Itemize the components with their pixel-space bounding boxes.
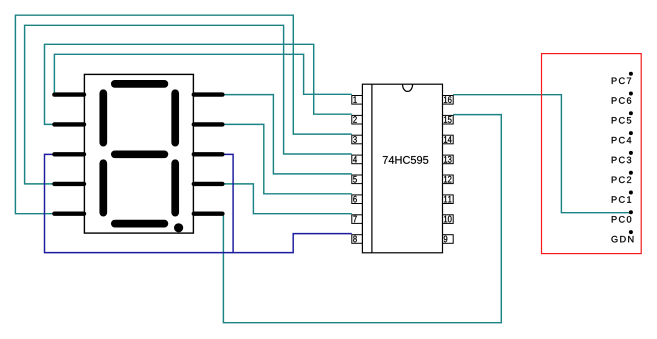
node PC3 <box>612 157 631 164</box>
connector J1 outline <box>542 54 642 254</box>
wire display L5 to U1 pin 3 <box>15 15 351 214</box>
U1 pin 10 <box>443 215 454 224</box>
display pin R1 <box>194 92 223 96</box>
segment G <box>115 150 165 158</box>
U1 body inner line <box>371 84 373 253</box>
wire display L1 to U1 pin 1 <box>54 54 351 94</box>
U1 pin 12 <box>443 175 454 184</box>
U1 notch <box>403 84 413 91</box>
U1 pin 14 <box>443 135 454 144</box>
U1 pin 11 <box>443 195 454 204</box>
display pin L5 <box>54 211 84 215</box>
segment D <box>115 220 165 228</box>
node PC4 <box>612 137 632 144</box>
display pin L3 <box>54 152 84 156</box>
display pin L1 <box>54 92 84 96</box>
wire display R5 to U1 pin 15 <box>223 115 501 323</box>
U1 pin 9 <box>443 235 454 244</box>
node PC2 <box>612 176 631 183</box>
wire display R2 to U1 pin 6 <box>223 124 352 193</box>
wire GND net display L3 to U1 pin 8 <box>45 154 352 252</box>
display pin R4 <box>194 182 223 186</box>
node PC5 <box>612 117 631 124</box>
decimal point <box>174 223 183 232</box>
display pin R2 <box>194 122 223 126</box>
node GDN <box>611 236 633 243</box>
U1 pin 13 <box>443 155 454 164</box>
display pin L4 <box>54 182 84 186</box>
wire U1 pin 16 to node PC0 <box>453 95 631 213</box>
display pin L2 <box>54 122 84 126</box>
segment A <box>115 80 165 88</box>
wire display R1 to U1 pin 5 <box>223 95 352 174</box>
node PC7 <box>612 77 631 84</box>
segment F <box>99 93 107 142</box>
segment B <box>171 93 179 142</box>
U1 pin 4 <box>352 155 363 164</box>
display pin R3 <box>194 152 223 156</box>
U1 pin 8 <box>352 235 363 244</box>
display pin R5 <box>194 211 223 215</box>
IC U1 74HC595 body <box>362 84 442 253</box>
U1 value label 74HC595 <box>383 156 428 164</box>
U1 pin 6 <box>352 195 363 204</box>
segment E <box>99 163 107 212</box>
U1 pin 2 <box>352 115 363 124</box>
U1 pin 15 <box>443 115 454 124</box>
U1 pin 3 <box>352 135 363 144</box>
U1 pin 7 <box>352 215 363 224</box>
wire display L4 to U1 pin 4 <box>25 25 352 184</box>
node PC0 <box>612 216 631 223</box>
U1 pin 5 <box>352 175 363 184</box>
node PC6 <box>612 97 631 104</box>
7-segment display DS1 body <box>84 74 193 233</box>
U1 pin 16 <box>443 96 454 105</box>
node PC1 <box>612 196 631 203</box>
U1 pin 1 <box>352 96 363 105</box>
wire display L2 to U1 pin 2 <box>45 44 352 124</box>
wire display R4 to U1 pin 7 <box>223 184 352 214</box>
wire GND net display R3 branch <box>223 154 234 252</box>
segment C <box>171 163 179 212</box>
